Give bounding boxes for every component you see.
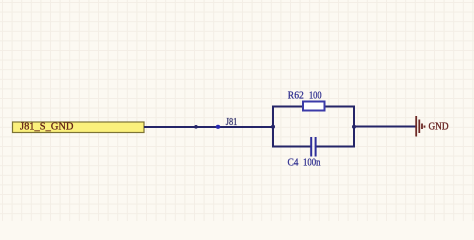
junction dot (194, 125, 198, 129)
wire: left vertical branch (272, 107, 274, 147)
capacitor C4 plate 2 (315, 137, 317, 157)
wire: bottom branch right of C4 (316, 146, 356, 148)
wire: top branch through R62 (272, 106, 355, 108)
wire: port to node J81 (144, 126, 273, 128)
svg-text:J81_S_GND: J81_S_GND (20, 122, 74, 133)
wire: node B to ground (354, 126, 416, 128)
svg-text:100n: 100n (303, 158, 321, 169)
svg-text:GND: GND (429, 121, 449, 132)
wire: bottom branch left of C4 (272, 146, 311, 148)
port J81_S_GND box (13, 122, 145, 133)
wire: right vertical branch (353, 107, 355, 147)
junction dot (net J81) (216, 125, 221, 129)
junction dot node A (271, 125, 275, 129)
svg-text:C4: C4 (288, 158, 299, 169)
capacitor C4 plate 1 (310, 137, 312, 157)
resistor R62 (303, 102, 325, 111)
svg-text:J81: J81 (226, 117, 238, 128)
ground (416, 116, 424, 137)
junction dot node B (352, 125, 356, 129)
svg-text:100: 100 (309, 90, 322, 101)
svg-text:R62: R62 (288, 90, 304, 101)
